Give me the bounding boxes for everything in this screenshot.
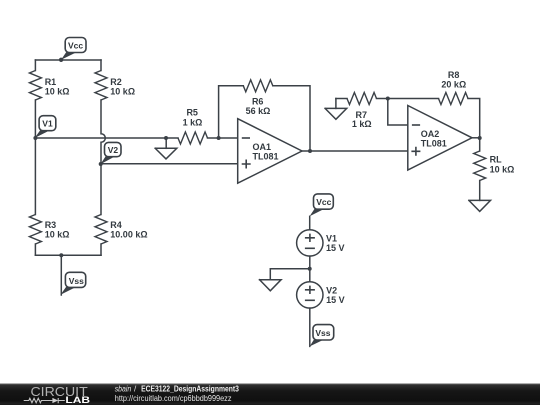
svg-text:R1: R1 bbox=[45, 77, 57, 87]
svg-text:ECE3122_DesignAssignment3: ECE3122_DesignAssignment3 bbox=[141, 385, 239, 394]
svg-text:R4: R4 bbox=[110, 220, 122, 230]
svg-text:Vss: Vss bbox=[69, 276, 84, 286]
svg-text:TL081: TL081 bbox=[253, 152, 279, 162]
svg-text:V1: V1 bbox=[42, 119, 53, 129]
svg-text:LAB: LAB bbox=[65, 395, 90, 405]
svg-text:1 kΩ: 1 kΩ bbox=[352, 119, 372, 129]
svg-text:Vcc: Vcc bbox=[68, 40, 83, 50]
svg-text:R6: R6 bbox=[252, 96, 264, 106]
svg-text:15 V: 15 V bbox=[326, 295, 345, 305]
svg-text:10 kΩ: 10 kΩ bbox=[490, 164, 515, 174]
svg-text:V2: V2 bbox=[108, 145, 119, 155]
svg-text:R3: R3 bbox=[45, 220, 57, 230]
svg-text:Vss: Vss bbox=[315, 328, 330, 338]
svg-text:RL: RL bbox=[490, 155, 502, 165]
svg-text:1 kΩ: 1 kΩ bbox=[183, 118, 203, 128]
svg-text:56 kΩ: 56 kΩ bbox=[246, 106, 271, 116]
svg-text:10 kΩ: 10 kΩ bbox=[45, 87, 70, 97]
svg-text:Vcc: Vcc bbox=[316, 197, 331, 207]
svg-text:sbain: sbain bbox=[115, 385, 132, 394]
svg-text:10.00 kΩ: 10.00 kΩ bbox=[110, 230, 147, 240]
svg-text:10 kΩ: 10 kΩ bbox=[110, 87, 135, 97]
svg-text:R8: R8 bbox=[448, 70, 460, 80]
svg-text:TL081: TL081 bbox=[421, 139, 447, 149]
svg-text:http://circuitlab.com/cp6bbdb9: http://circuitlab.com/cp6bbdb999ezz bbox=[115, 394, 232, 403]
svg-text:20 kΩ: 20 kΩ bbox=[441, 79, 466, 89]
svg-text:V2: V2 bbox=[326, 286, 337, 296]
svg-text:V1: V1 bbox=[326, 234, 337, 244]
svg-text:10 kΩ: 10 kΩ bbox=[45, 230, 70, 240]
svg-text:15 V: 15 V bbox=[326, 243, 345, 253]
svg-text:R2: R2 bbox=[110, 77, 122, 87]
svg-text:R5: R5 bbox=[186, 108, 198, 118]
